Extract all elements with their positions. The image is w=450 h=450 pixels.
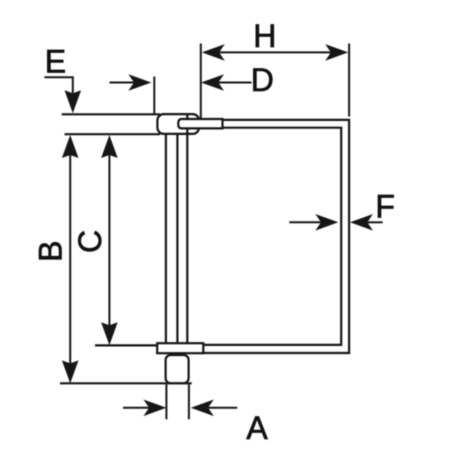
extension line top-left (head top, E reference) (62, 113, 160, 115)
dimension B bottom arrowhead (62, 360, 79, 383)
dimension A extension line left (165, 385, 167, 420)
extension line C bottom (loop bottom reference) (95, 344, 158, 346)
dimension H left arrowhead (202, 44, 225, 61)
wire loop inner edge (204, 128, 341, 345)
dimension D left tail line (110, 82, 135, 84)
dimension E leader (44, 77, 72, 93)
pin head (157, 114, 199, 134)
svg-text:F: F (375, 188, 395, 224)
dimension F right arrowhead (350, 214, 373, 231)
dimension C line (108, 150, 110, 330)
svg-text:D: D (251, 62, 274, 98)
pin tip (166, 355, 189, 383)
extension line (head bottom, B/C top reference) (65, 133, 161, 135)
dimension H right arrowhead (325, 44, 348, 61)
shaft line right (186, 114, 188, 343)
dimension A left arrowhead (143, 400, 166, 417)
head inner line (186, 114, 188, 134)
dimension C top arrowhead (101, 135, 118, 158)
dimension A right arrowhead (191, 400, 214, 417)
dimension A extension line right (188, 385, 190, 420)
dimension F right tail line (367, 221, 382, 223)
dimension A right tail line (208, 407, 237, 409)
dimension D extension line left (153, 77, 155, 114)
dimension H extension line right (348, 44, 350, 117)
dimension D right tail line (218, 82, 251, 84)
wire top thick sleeve (178, 119, 222, 128)
dimension H line (219, 51, 331, 53)
dimension E arrowhead (65, 90, 82, 113)
dimension H extension line left (shared with D) (200, 44, 202, 119)
dimension D right arrowhead (201, 74, 224, 91)
shaft line left (165, 134, 167, 344)
dimension B top arrowhead (62, 135, 79, 158)
dimension D left arrowhead (128, 74, 151, 91)
dimension C bottom arrowhead (101, 322, 118, 345)
shaft line middle (176, 134, 178, 344)
svg-text:A: A (246, 410, 268, 446)
wire bottom wrap (157, 343, 203, 353)
dimension F left tail line (289, 221, 321, 223)
dimension A left tail line (123, 407, 149, 409)
svg-text:E: E (45, 43, 66, 79)
svg-text:H: H (253, 18, 276, 54)
dimension F left arrowhead (315, 214, 338, 231)
dimension B line (69, 150, 71, 368)
wire loop outer edge (204, 120, 349, 353)
svg-text:C: C (72, 230, 108, 253)
svg-text:B: B (33, 241, 69, 262)
extension line bottom (pin tip bottom, B bottom reference) (60, 382, 192, 384)
